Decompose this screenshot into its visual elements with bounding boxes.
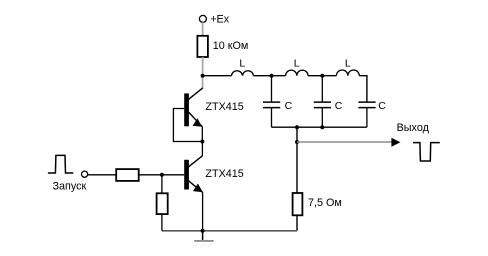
svg-text:+Ex: +Ex	[210, 14, 230, 26]
wire L2 to node C	[308, 75, 336, 77]
node C	[320, 74, 324, 78]
wire output column	[296, 127, 298, 193]
resistor R4 (base pulldown)	[157, 193, 168, 214]
node E (C2 bottom)	[320, 125, 324, 129]
wire LC bottom rail	[272, 126, 367, 128]
wire node G to R4	[161, 175, 163, 194]
inductor L3	[336, 58, 359, 76]
wire L3 to right corner	[359, 76, 367, 102]
node I (ground junction)	[201, 229, 205, 233]
svg-text:7,5 Ом: 7,5 Ом	[308, 197, 342, 209]
input pulse symbol (positive)	[48, 155, 73, 173]
svg-text:10 кОм: 10 кОм	[213, 40, 249, 52]
inductor L1	[232, 58, 254, 76]
wire bottom return rail	[162, 230, 297, 232]
node A (collector rail junction)	[201, 74, 205, 78]
svg-text:ZTX415: ZTX415	[205, 101, 243, 113]
transistor Q1 ZTX415 (upper)	[184, 88, 244, 142]
transistor Q2 ZTX415 (lower)	[184, 156, 244, 231]
terminal +Ex	[199, 14, 229, 26]
svg-text:ZTX415: ZTX415	[205, 168, 243, 180]
svg-text:C: C	[335, 100, 343, 112]
capacitor C1	[263, 76, 293, 128]
svg-text:L: L	[345, 58, 351, 70]
svg-text:L: L	[294, 58, 300, 70]
resistor R3 7.5 Ohm	[293, 193, 342, 215]
resistor R2 (series input)	[116, 169, 139, 181]
svg-text:Выход: Выход	[397, 122, 430, 134]
node D (output column top)	[295, 125, 299, 129]
capacitor C2	[314, 76, 343, 128]
node F (output tap)	[295, 140, 299, 144]
wire terminal to R1	[202, 22, 204, 36]
node G (base / divider junction)	[160, 173, 164, 177]
svg-text:C: C	[285, 100, 293, 112]
svg-text:C: C	[378, 100, 386, 112]
inductor L2	[286, 58, 308, 76]
wire Q1 base loop	[173, 109, 202, 142]
wire L1 to node B	[253, 75, 285, 77]
svg-text:Запуск: Запуск	[53, 181, 87, 193]
capacitor C3	[358, 100, 386, 127]
wire R1 to Q1 collector	[202, 57, 204, 88]
resistor R1 10 kOhm	[197, 36, 248, 57]
wire R2 to Q2 base	[139, 174, 185, 176]
wire node H to Q2 collector	[201, 142, 203, 157]
wire input circle to R2	[88, 174, 117, 176]
wire R4 to bottom rail	[161, 214, 163, 231]
terminal input circle	[82, 171, 88, 177]
output pulse symbol (negative)	[413, 143, 440, 161]
node H (interstage)	[200, 140, 204, 144]
wire output arrow line	[297, 141, 392, 143]
wire rail to L1	[203, 75, 232, 77]
svg-text:L: L	[239, 58, 245, 70]
wire R3 to bottom rail	[296, 215, 298, 231]
node B	[270, 74, 274, 78]
ground	[194, 231, 214, 248]
output arrowhead	[391, 138, 400, 147]
